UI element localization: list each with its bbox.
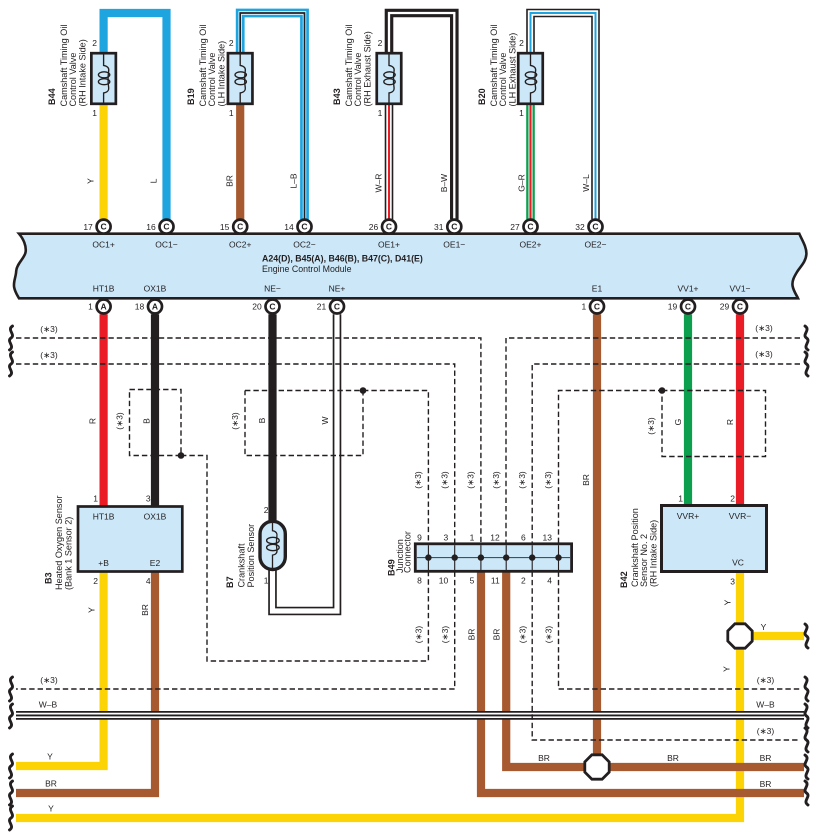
svg-text:C: C <box>685 302 691 312</box>
svg-text:12: 12 <box>490 532 500 542</box>
svg-text:(∗3): (∗3) <box>755 349 773 359</box>
svg-text:C: C <box>737 302 743 312</box>
svg-text:Y: Y <box>761 622 767 632</box>
svg-text:OC2−: OC2− <box>293 240 315 250</box>
svg-text:E2: E2 <box>150 558 161 568</box>
shield dashed B49 pin 10 to lower-left row <box>16 572 455 690</box>
svg-text:L–B: L–B <box>289 173 299 188</box>
svg-text:BR: BR <box>466 629 476 641</box>
svg-text:OX1B: OX1B <box>144 284 167 294</box>
svg-text:17: 17 <box>83 222 93 232</box>
junction connector B49 <box>415 544 571 572</box>
svg-text:26: 26 <box>369 222 379 232</box>
svg-text:W–B: W–B <box>39 700 58 710</box>
shield box around NE- and NE+ wires <box>245 391 363 456</box>
svg-text:B19: B19 <box>186 88 196 105</box>
continuation mark left W-B <box>9 704 12 728</box>
svg-text:VVR−: VVR− <box>729 511 751 521</box>
ECM terminal 1A HT1B <box>88 300 111 314</box>
svg-text:1: 1 <box>581 302 586 312</box>
B49 pin number labels bottom 8 10 5 11 2 4 <box>417 576 552 586</box>
svg-text:OE2−: OE2− <box>585 240 607 250</box>
svg-text:(∗3): (∗3) <box>757 726 775 736</box>
continuation mark left bottom Y <box>9 806 12 830</box>
svg-text:B42: B42 <box>619 571 629 588</box>
svg-text:Position Sensor: Position Sensor <box>246 524 256 588</box>
svg-text:(∗3): (∗3) <box>439 471 449 489</box>
svg-text:Sensor No. 2: Sensor No. 2 <box>639 534 649 587</box>
svg-text:BR: BR <box>492 629 502 641</box>
svg-text:A: A <box>101 302 107 312</box>
svg-text:1: 1 <box>519 108 524 118</box>
svg-text:(RH Exhaust Side): (RH Exhaust Side) <box>363 31 373 106</box>
svg-text:C: C <box>163 222 169 232</box>
ECM title text <box>262 254 423 275</box>
svg-text:2: 2 <box>521 576 526 586</box>
svg-text:VV1+: VV1+ <box>677 284 698 294</box>
svg-text:16: 16 <box>146 222 156 232</box>
svg-text:OE1+: OE1+ <box>378 240 400 250</box>
continuation mark right row 338 <box>805 326 808 350</box>
shield dashed row upper-right second (*3) <box>532 364 800 543</box>
svg-text:C: C <box>101 222 107 232</box>
wire BR from B49 pin 5 to right edge <box>481 571 804 793</box>
svg-text:W–R: W–R <box>374 174 384 193</box>
svg-text:2: 2 <box>92 38 97 48</box>
component label B19 Camshaft Timing Oil Control Valve (LH Intake Side) <box>186 25 227 107</box>
svg-text:(∗3): (∗3) <box>414 626 424 644</box>
svg-text:2: 2 <box>730 494 735 504</box>
wire B (NE-) from ECM terminal 20 to B7 pin 2 <box>268 314 276 520</box>
svg-text:(∗3): (∗3) <box>466 471 476 489</box>
svg-text:14: 14 <box>284 222 294 232</box>
svg-text:BR: BR <box>45 779 57 789</box>
svg-text:(LH Exhaust Side): (LH Exhaust Side) <box>508 33 518 107</box>
svg-text:3: 3 <box>443 532 448 542</box>
crankshaft position sensor B42 <box>662 506 767 572</box>
shield box around OX1B B wire <box>130 390 182 456</box>
footnote and wire labels below B49 <box>414 626 554 644</box>
wire W (NE+) from ECM terminal 21 to B7 pin 1 <box>273 314 338 611</box>
footnote (*3) labels above B49 <box>413 471 553 489</box>
svg-text:Y: Y <box>48 804 54 814</box>
svg-text:B7: B7 <box>225 576 235 588</box>
svg-text:BR: BR <box>760 779 772 789</box>
solenoid valve B20 <box>518 53 543 104</box>
B49 pin number labels top 9 3 1 12 6 13 <box>417 532 552 542</box>
ECM terminal 29 VV1- <box>720 300 747 314</box>
splice octagon on VC yellow wire <box>728 624 752 648</box>
svg-text:B–W: B–W <box>439 174 449 192</box>
svg-text:R: R <box>725 419 735 425</box>
continuation mark left row 689 <box>9 677 12 701</box>
svg-text:B20: B20 <box>477 88 487 105</box>
ECM terminal 1C E1 <box>581 300 604 314</box>
svg-text:G: G <box>673 419 683 426</box>
svg-text:4: 4 <box>547 576 552 586</box>
svg-text:(∗3): (∗3) <box>413 471 423 489</box>
svg-text:1: 1 <box>378 108 383 118</box>
svg-text:(∗3): (∗3) <box>543 471 553 489</box>
svg-text:2: 2 <box>264 505 269 515</box>
continuation mark left Y row <box>9 754 12 778</box>
svg-text:(∗3): (∗3) <box>40 350 58 360</box>
wire L from B44 pin 2 to ECM terminal 16 <box>104 13 167 219</box>
wire BR (E1) from ECM terminal 1C to splice octagon <box>593 314 601 760</box>
svg-text:(∗3): (∗3) <box>757 675 775 685</box>
wire Y branch from octagon splice to right edge <box>747 632 804 640</box>
svg-text:VC: VC <box>732 558 744 568</box>
svg-text:OX1B: OX1B <box>144 512 167 522</box>
shield junction node at OX1B box <box>178 452 185 459</box>
continuation mark left row 364 <box>9 352 12 376</box>
svg-text:1: 1 <box>678 494 683 504</box>
svg-text:OC2+: OC2+ <box>229 240 251 250</box>
continuation mark right row 740 <box>805 728 808 752</box>
svg-text:(∗3): (∗3) <box>517 471 527 489</box>
svg-text:1: 1 <box>88 302 93 312</box>
ECM terminal 26 OE1+ <box>369 220 396 234</box>
svg-text:C: C <box>451 222 457 232</box>
svg-text:1: 1 <box>470 532 475 542</box>
svg-text:11: 11 <box>491 576 500 586</box>
svg-text:BR: BR <box>760 753 772 763</box>
svg-text:(∗3): (∗3) <box>517 626 527 644</box>
svg-text:G–R: G–R <box>517 174 527 191</box>
svg-text:C: C <box>237 222 243 232</box>
shield dashed row upper-left (*3) <box>16 338 481 543</box>
shield junction node at B42 box <box>659 387 666 394</box>
svg-text:OC1−: OC1− <box>155 240 177 250</box>
ECM terminal 21 NE+ <box>317 300 344 314</box>
svg-text:BR: BR <box>140 604 150 616</box>
svg-text:OE2+: OE2+ <box>520 240 542 250</box>
svg-text:1: 1 <box>92 108 97 118</box>
svg-text:W–L: W–L <box>581 174 591 192</box>
svg-text:OE1−: OE1− <box>443 240 465 250</box>
solenoid valve B19 <box>228 53 253 104</box>
continuation mark right BR row2 <box>805 781 808 805</box>
svg-text:(∗3): (∗3) <box>755 323 773 333</box>
ECM terminal 19 VV1+ <box>668 300 695 314</box>
svg-text:A: A <box>152 302 158 312</box>
svg-text:(Bank 1 Sensor 2): (Bank 1 Sensor 2) <box>63 517 73 590</box>
wire Y from B42 VC to bottom yellow run <box>16 572 740 819</box>
wire R from ECM VV1- to B42 pin 2 <box>736 314 744 505</box>
component label B43 Camshaft Timing Oil Control Valve (RH Exhaust Side) <box>332 25 373 107</box>
svg-text:(RH Intake Side): (RH Intake Side) <box>649 520 659 587</box>
svg-text:BR: BR <box>667 753 679 763</box>
svg-text:2: 2 <box>229 38 234 48</box>
svg-text:(RH Intake Side): (RH Intake Side) <box>78 39 88 106</box>
svg-text:BR: BR <box>225 175 235 187</box>
shield link NE box to B49 pin 9 <box>363 391 428 544</box>
ECM top terminal name labels <box>92 240 606 250</box>
svg-text:(LH Intake Side): (LH Intake Side) <box>217 41 227 107</box>
svg-text:4: 4 <box>146 576 151 586</box>
svg-text:BR: BR <box>538 753 550 763</box>
wire B from ECM OX1B to B3 pin 3 <box>151 314 159 506</box>
wire BR from B49 pin 11 through splice to right edge <box>506 571 804 767</box>
crankshaft position sensor B7 <box>260 521 285 569</box>
svg-text:15: 15 <box>220 222 230 232</box>
svg-text:B44: B44 <box>47 87 57 105</box>
svg-text:1: 1 <box>264 576 269 586</box>
svg-text:19: 19 <box>668 302 678 312</box>
svg-text:29: 29 <box>720 302 730 312</box>
svg-text:Engine Control Module: Engine Control Module <box>262 264 352 274</box>
continuation mark right row 364 <box>805 352 808 376</box>
component label B7 Crankshaft Position Sensor <box>225 524 256 588</box>
svg-text:C: C <box>386 222 392 232</box>
svg-text:Y: Y <box>87 607 97 613</box>
wire Y from B44 pin 1 to ECM terminal 17 <box>99 104 107 219</box>
ECM terminal 20 NE- <box>252 300 279 314</box>
svg-text:Y: Y <box>86 178 96 184</box>
continuation mark left BR row <box>9 781 12 805</box>
svg-text:3: 3 <box>730 577 735 587</box>
wire Y from B3 +B to left edge <box>16 572 104 767</box>
svg-text:NE+: NE+ <box>329 284 346 294</box>
svg-text:8: 8 <box>417 576 422 586</box>
component label B49 Junction Connector <box>387 531 413 576</box>
svg-text:5: 5 <box>470 576 475 586</box>
wire W-L from B20 pin 2 to ECM terminal 32 <box>531 13 596 219</box>
Engine Control Module band A24/B45/B46/B47/D41 <box>14 234 806 299</box>
svg-text:(∗3): (∗3) <box>491 471 501 489</box>
svg-text:R: R <box>88 418 98 424</box>
component label B44 Camshaft Timing Oil Control Valve (RH Intake Side) <box>47 25 88 107</box>
shield dashed B49 pin 2 to lower-right row <box>532 572 800 741</box>
wire W-B bottom run <box>16 711 804 720</box>
wire BR from B19 pin 1 to ECM terminal 15 <box>236 104 244 219</box>
svg-text:W: W <box>320 416 330 424</box>
shield dashed B49 pin 4 to lower-right row <box>559 572 801 690</box>
svg-text:31: 31 <box>434 222 444 232</box>
svg-text:B: B <box>142 418 152 424</box>
svg-text:Connector: Connector <box>403 531 413 573</box>
ECM terminal 32 OE2- <box>575 220 602 234</box>
ECM terminal 14 OC2- <box>284 220 311 234</box>
svg-text:C: C <box>334 302 340 312</box>
ECM terminal 18A OX1B <box>135 300 162 314</box>
continuation mark right BR row1 <box>805 755 808 779</box>
svg-text:B43: B43 <box>332 88 342 105</box>
svg-text:1: 1 <box>93 494 98 504</box>
solenoid valve B44 <box>91 53 116 104</box>
svg-text:13: 13 <box>543 532 553 542</box>
svg-text:C: C <box>269 302 275 312</box>
ECM terminal 17 OC1+ <box>83 220 110 234</box>
svg-text:(∗3): (∗3) <box>440 626 450 644</box>
shield dashed row upper-right (*3) <box>506 338 800 543</box>
svg-text:B3: B3 <box>44 572 54 584</box>
shield link OX1B box to B7 shield <box>181 456 428 662</box>
svg-text:18: 18 <box>135 302 145 312</box>
svg-text:Y: Y <box>47 752 53 762</box>
svg-text:VV1−: VV1− <box>729 284 750 294</box>
heated oxygen sensor B3 <box>78 507 182 572</box>
svg-text:2: 2 <box>519 38 524 48</box>
ECM terminal 27 OE2+ <box>510 220 537 234</box>
svg-text:C: C <box>527 222 533 232</box>
component label B42 Crankshaft Position Sensor No. 2 (RH Intake Side) <box>619 508 659 588</box>
svg-text:BR: BR <box>581 474 591 486</box>
svg-text:HT1B: HT1B <box>93 284 115 294</box>
svg-text:NE−: NE− <box>264 284 281 294</box>
wire W-R from B43 pin 1 to ECM terminal 26 <box>385 104 394 219</box>
svg-text:(∗3): (∗3) <box>40 324 58 334</box>
continuation mark right row 689 <box>805 677 808 701</box>
svg-text:Y: Y <box>722 666 732 672</box>
svg-text:10: 10 <box>439 576 449 586</box>
continuation mark left row 338 <box>9 326 12 350</box>
svg-text:3: 3 <box>146 494 151 504</box>
ECM terminal 16 OC1- <box>146 220 173 234</box>
ECM terminal 15 OC2+ <box>220 220 247 234</box>
svg-text:2: 2 <box>93 576 98 586</box>
ECM terminal 31 OE1- <box>434 220 461 234</box>
svg-text:C: C <box>592 222 598 232</box>
svg-text:HT1B: HT1B <box>93 512 115 522</box>
svg-text:VVR+: VVR+ <box>677 511 699 521</box>
svg-text:Y: Y <box>723 599 733 605</box>
svg-text:20: 20 <box>252 302 262 312</box>
svg-text:W–B: W–B <box>756 700 775 710</box>
svg-text:2: 2 <box>378 38 383 48</box>
svg-text:OC1+: OC1+ <box>92 240 114 250</box>
wire G from ECM VV1+ to B42 pin 1 <box>684 314 692 505</box>
wire L-B from B19 pin 2 to ECM terminal 14 <box>240 13 304 219</box>
svg-text:1: 1 <box>229 108 234 118</box>
wire BR from B3 E2 to left edge <box>16 572 155 794</box>
shield link B49 pin 13 to B42 shield box <box>559 391 663 544</box>
wire R from ECM HT1B to B3 pin 1 <box>99 314 107 506</box>
svg-text:+B: +B <box>98 558 109 568</box>
svg-text:(∗3): (∗3) <box>40 675 58 685</box>
svg-text:9: 9 <box>417 532 422 542</box>
ECM bottom terminal name labels <box>93 284 751 294</box>
wire B-W from B43 pin 2 to ECM terminal 31 <box>389 13 454 219</box>
component label B3 Heated Oxygen Sensor (Bank 1 Sensor 2) <box>44 495 74 590</box>
splice octagon on E1 BR wire <box>585 755 609 779</box>
svg-text:B: B <box>257 417 267 423</box>
continuation mark right W-B <box>805 704 808 728</box>
svg-text:27: 27 <box>510 222 520 232</box>
solenoid valve B43 <box>377 53 402 104</box>
svg-text:21: 21 <box>317 302 327 312</box>
svg-text:(∗3): (∗3) <box>230 412 240 430</box>
svg-text:(∗3): (∗3) <box>544 626 554 644</box>
shield box around VV1 G and R wires <box>662 391 766 457</box>
shield dashed row upper-left second (*3) <box>16 364 455 543</box>
continuation mark right Y branch <box>805 624 808 648</box>
svg-text:A24(D), B45(A), B46(B), B47(C): A24(D), B45(A), B46(B), B47(C), D41(E) <box>262 254 423 264</box>
wire G-R from B20 pin 1 to ECM terminal 27 <box>526 104 535 219</box>
component label B20 Camshaft Timing Oil Control Valve (LH Exhaust Side) <box>477 25 518 107</box>
svg-text:32: 32 <box>575 222 585 232</box>
svg-text:E1: E1 <box>592 284 603 294</box>
svg-text:6: 6 <box>521 532 526 542</box>
svg-text:C: C <box>301 222 307 232</box>
svg-text:(∗3): (∗3) <box>646 417 656 435</box>
shield junction node at NE box <box>360 387 367 394</box>
svg-text:C: C <box>594 302 600 312</box>
svg-text:(∗3): (∗3) <box>115 412 125 430</box>
svg-text:L: L <box>149 178 159 183</box>
